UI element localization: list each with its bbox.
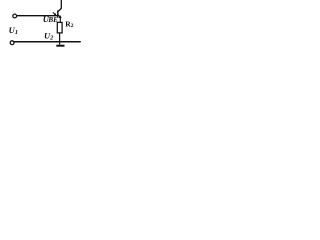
emitter arrowhead — [58, 15, 61, 18]
collector diagonal — [58, 8, 61, 11]
resistor R2 (box) — [57, 22, 62, 33]
terminal T2 (bottom-left) — [10, 41, 14, 45]
svg-text:R2: R2 — [65, 19, 73, 29]
emitter diagonal — [58, 15, 60, 17]
transistor Q1 (npn) — [58, 0, 62, 23]
base bar — [57, 10, 59, 17]
terminal T1 (input, top-left) — [13, 14, 17, 18]
collector lead — [60, 0, 62, 9]
svg-text:U1: U1 — [9, 25, 18, 36]
bottom rail wire — [14, 41, 80, 43]
emitter lead — [59, 18, 61, 23]
wire (base lead from T1 to transistor base) — [17, 15, 57, 17]
voltage arrow UBE — [53, 12, 57, 15]
wire (R2 bottom to ground) — [59, 33, 61, 45]
ground — [56, 45, 64, 47]
svg-text:U2: U2 — [44, 31, 53, 42]
